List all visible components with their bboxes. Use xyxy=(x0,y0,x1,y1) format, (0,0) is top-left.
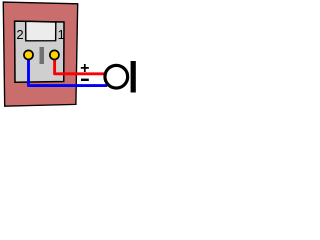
faceplate xyxy=(15,21,64,82)
terminal pin 1 xyxy=(50,50,59,59)
red wire (plus lead) xyxy=(55,55,105,74)
svg-text:+: + xyxy=(80,60,89,77)
svg-text:1: 1 xyxy=(58,27,65,42)
center slot xyxy=(40,47,45,64)
socket housing (red panel) xyxy=(3,2,77,106)
svg-text:2: 2 xyxy=(16,27,23,42)
blue wire (minus lead) xyxy=(29,55,108,86)
loudspeaker LS1 (circle) xyxy=(105,65,128,88)
recess box xyxy=(26,21,56,40)
loudspeaker pole bar xyxy=(131,61,136,93)
terminal pin 2 xyxy=(24,50,33,59)
polarity label minus xyxy=(81,79,89,81)
